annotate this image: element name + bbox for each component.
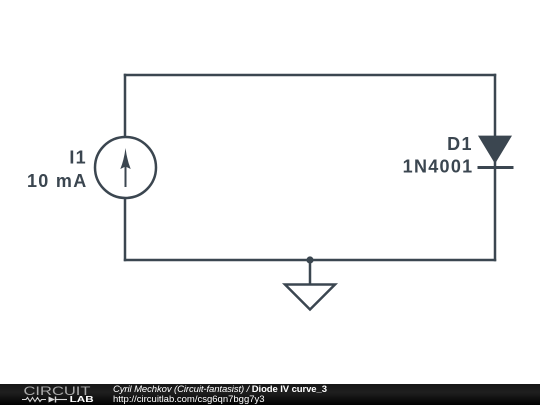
junction node on ground net bbox=[306, 256, 313, 263]
wire left lower bbox=[124, 198, 127, 261]
svg-text:LAB: LAB bbox=[70, 394, 94, 404]
footer credits text bbox=[112, 383, 114, 385]
svg-text:D1: D1 bbox=[447, 134, 473, 154]
CircuitLab logo bbox=[0, 384, 100, 405]
current source I1 arrow bbox=[120, 148, 130, 187]
diode D1 anode triangle bbox=[478, 136, 512, 164]
wire left upper bbox=[124, 74, 127, 138]
svg-text:10 mA: 10 mA bbox=[27, 171, 88, 191]
logo diode bbox=[49, 397, 56, 403]
wire top (node from I1 to D1) bbox=[124, 74, 496, 77]
svg-text:1N4001: 1N4001 bbox=[403, 157, 474, 177]
ground stub wire bbox=[309, 260, 312, 284]
diode D1 cathode bar bbox=[478, 166, 514, 169]
svg-text:I1: I1 bbox=[69, 148, 87, 168]
wire right bbox=[494, 74, 497, 261]
footer bar bbox=[0, 384, 540, 405]
current source I1 body bbox=[95, 137, 156, 198]
ground symbol bbox=[285, 285, 335, 310]
wire bottom (ground net) bbox=[124, 259, 496, 262]
logo resistor bbox=[22, 398, 46, 402]
